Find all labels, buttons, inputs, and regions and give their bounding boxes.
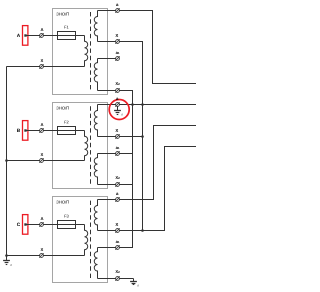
- svg-text:X: X: [41, 152, 44, 157]
- svg-text:a1: a1: [116, 145, 120, 150]
- svg-text:F3: F3: [64, 213, 69, 218]
- svg-text:F2: F2: [64, 119, 69, 124]
- svg-text:л: л: [120, 113, 123, 117]
- svg-text:X: X: [41, 247, 44, 252]
- svg-text:A: A: [40, 27, 43, 32]
- svg-text:a1: a1: [116, 239, 120, 244]
- svg-text:X2: X2: [115, 269, 120, 274]
- svg-text:л: л: [136, 283, 139, 287]
- svg-text:A: A: [17, 33, 21, 39]
- svg-text:X: X: [115, 222, 118, 227]
- svg-text:A: A: [40, 122, 43, 127]
- svg-text:ЗНО/П: ЗНО/П: [56, 11, 69, 16]
- svg-text:X2: X2: [115, 81, 120, 86]
- svg-text:F1: F1: [64, 24, 69, 29]
- svg-text:B: B: [17, 128, 21, 134]
- svg-text:a1: a1: [116, 50, 120, 55]
- svg-text:A: A: [40, 216, 43, 221]
- svg-text:X: X: [41, 58, 44, 63]
- svg-text:X: X: [115, 128, 118, 133]
- svg-text:X2: X2: [115, 175, 120, 180]
- svg-text:X: X: [115, 33, 118, 38]
- svg-text:ЗНО/П: ЗНО/П: [56, 105, 69, 110]
- svg-text:л: л: [9, 263, 12, 267]
- svg-text:C: C: [17, 222, 21, 228]
- svg-text:ЗНО/П: ЗНО/П: [56, 199, 69, 204]
